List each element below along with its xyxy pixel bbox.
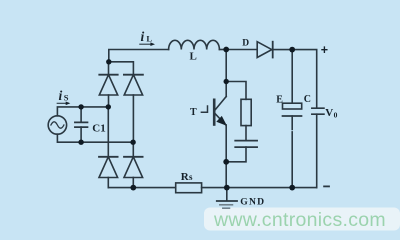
wire snubber cap to emitter junction <box>226 147 246 162</box>
wire node A down to transistor collector <box>225 50 227 97</box>
wire resistor to snubber cap <box>245 126 247 141</box>
svg-text:i: i <box>59 88 63 103</box>
node output bottom <box>289 185 295 191</box>
node output top <box>289 47 295 53</box>
arrow iS <box>57 102 70 106</box>
wire bridge top connector <box>109 62 134 75</box>
capacitor V0 plates <box>312 108 324 114</box>
electrolytic capacitor E/C top lead <box>291 50 293 104</box>
svg-text:+: + <box>321 43 328 57</box>
node C1 bottom <box>78 140 83 145</box>
node A top <box>223 47 229 53</box>
wire inductor to node A <box>219 49 226 51</box>
wire diode D to + corner <box>292 50 317 108</box>
label V0 <box>325 107 337 120</box>
label iS <box>59 88 69 103</box>
ac source sine wave <box>51 122 64 128</box>
bottom rail middle <box>202 187 293 189</box>
wire source top lead <box>57 107 81 116</box>
transistor T gate lead <box>201 106 207 112</box>
bridge diode bottom-right <box>124 142 143 187</box>
wire bridge riser to top rail <box>109 50 169 62</box>
svg-text:L: L <box>190 51 197 63</box>
label iL <box>141 29 153 44</box>
node snubber top <box>224 79 229 84</box>
arrow iL <box>140 42 155 46</box>
ground symbol <box>217 188 237 209</box>
bridge diode bottom-left <box>99 157 118 188</box>
snubber capacitor plates <box>235 141 257 148</box>
bottom rail right <box>292 187 317 189</box>
wire emitter junction to rail <box>225 162 227 188</box>
svg-text:0: 0 <box>334 111 338 120</box>
resistor Rs <box>176 183 202 193</box>
ac source Vs circle <box>48 116 66 134</box>
wire node A to diode D <box>226 49 257 51</box>
capacitor C1 bottom lead <box>80 127 82 142</box>
capacitor C1 plates <box>75 122 88 127</box>
electrolytic capacitor E/C bottom plate <box>283 115 302 117</box>
electrolytic capacitor E/C rectangle plate <box>283 103 302 109</box>
electrolytic capacitor E/C bottom lead <box>291 116 293 188</box>
transistor T base bar <box>213 100 216 125</box>
node emitter-snubber <box>223 159 229 165</box>
wire V0 bottom to rail <box>316 114 318 187</box>
wire source top to bridge left mid <box>81 106 108 108</box>
svg-text:i: i <box>141 29 145 44</box>
svg-text:GND: GND <box>240 196 265 207</box>
node C1 top <box>78 104 83 109</box>
minus terminal <box>324 185 329 187</box>
bridge diode top-right <box>124 75 143 143</box>
bottom rail left <box>108 187 175 189</box>
transistor T emitter arrow <box>216 116 227 126</box>
snubber resistor <box>241 99 251 125</box>
transistor T collector diagonal <box>215 97 226 111</box>
svg-text:V: V <box>325 107 333 119</box>
node GND on rail <box>224 185 230 191</box>
svg-text:L: L <box>146 34 152 44</box>
svg-text:www.cntronics.com: www.cntronics.com <box>213 209 386 231</box>
diode D <box>257 42 292 58</box>
bridge diode top-left <box>99 62 117 107</box>
capacitor C1 top lead <box>80 107 82 122</box>
node bridge bottom right <box>130 185 136 191</box>
svg-text:E: E <box>276 94 283 105</box>
wire snubber top branch <box>226 82 246 100</box>
wire emitter down <box>225 125 227 162</box>
transistor T emitter diagonal <box>215 114 226 126</box>
watermark band <box>204 208 400 231</box>
inductor L <box>169 40 220 49</box>
svg-text:C: C <box>304 94 311 105</box>
node bridge right mid <box>130 140 135 145</box>
svg-text:T: T <box>190 107 197 118</box>
node bridge top connector <box>106 59 111 64</box>
node bridge left mid <box>106 104 111 109</box>
svg-text:s: s <box>189 172 193 182</box>
svg-text:D: D <box>242 39 249 49</box>
svg-text:C1: C1 <box>92 122 105 134</box>
wire source bottom lead <box>57 134 81 142</box>
wire bridge left column (mid to bottom diode) <box>107 107 109 157</box>
wire source bottom to bridge right mid <box>81 141 133 143</box>
svg-text:S: S <box>64 93 69 103</box>
